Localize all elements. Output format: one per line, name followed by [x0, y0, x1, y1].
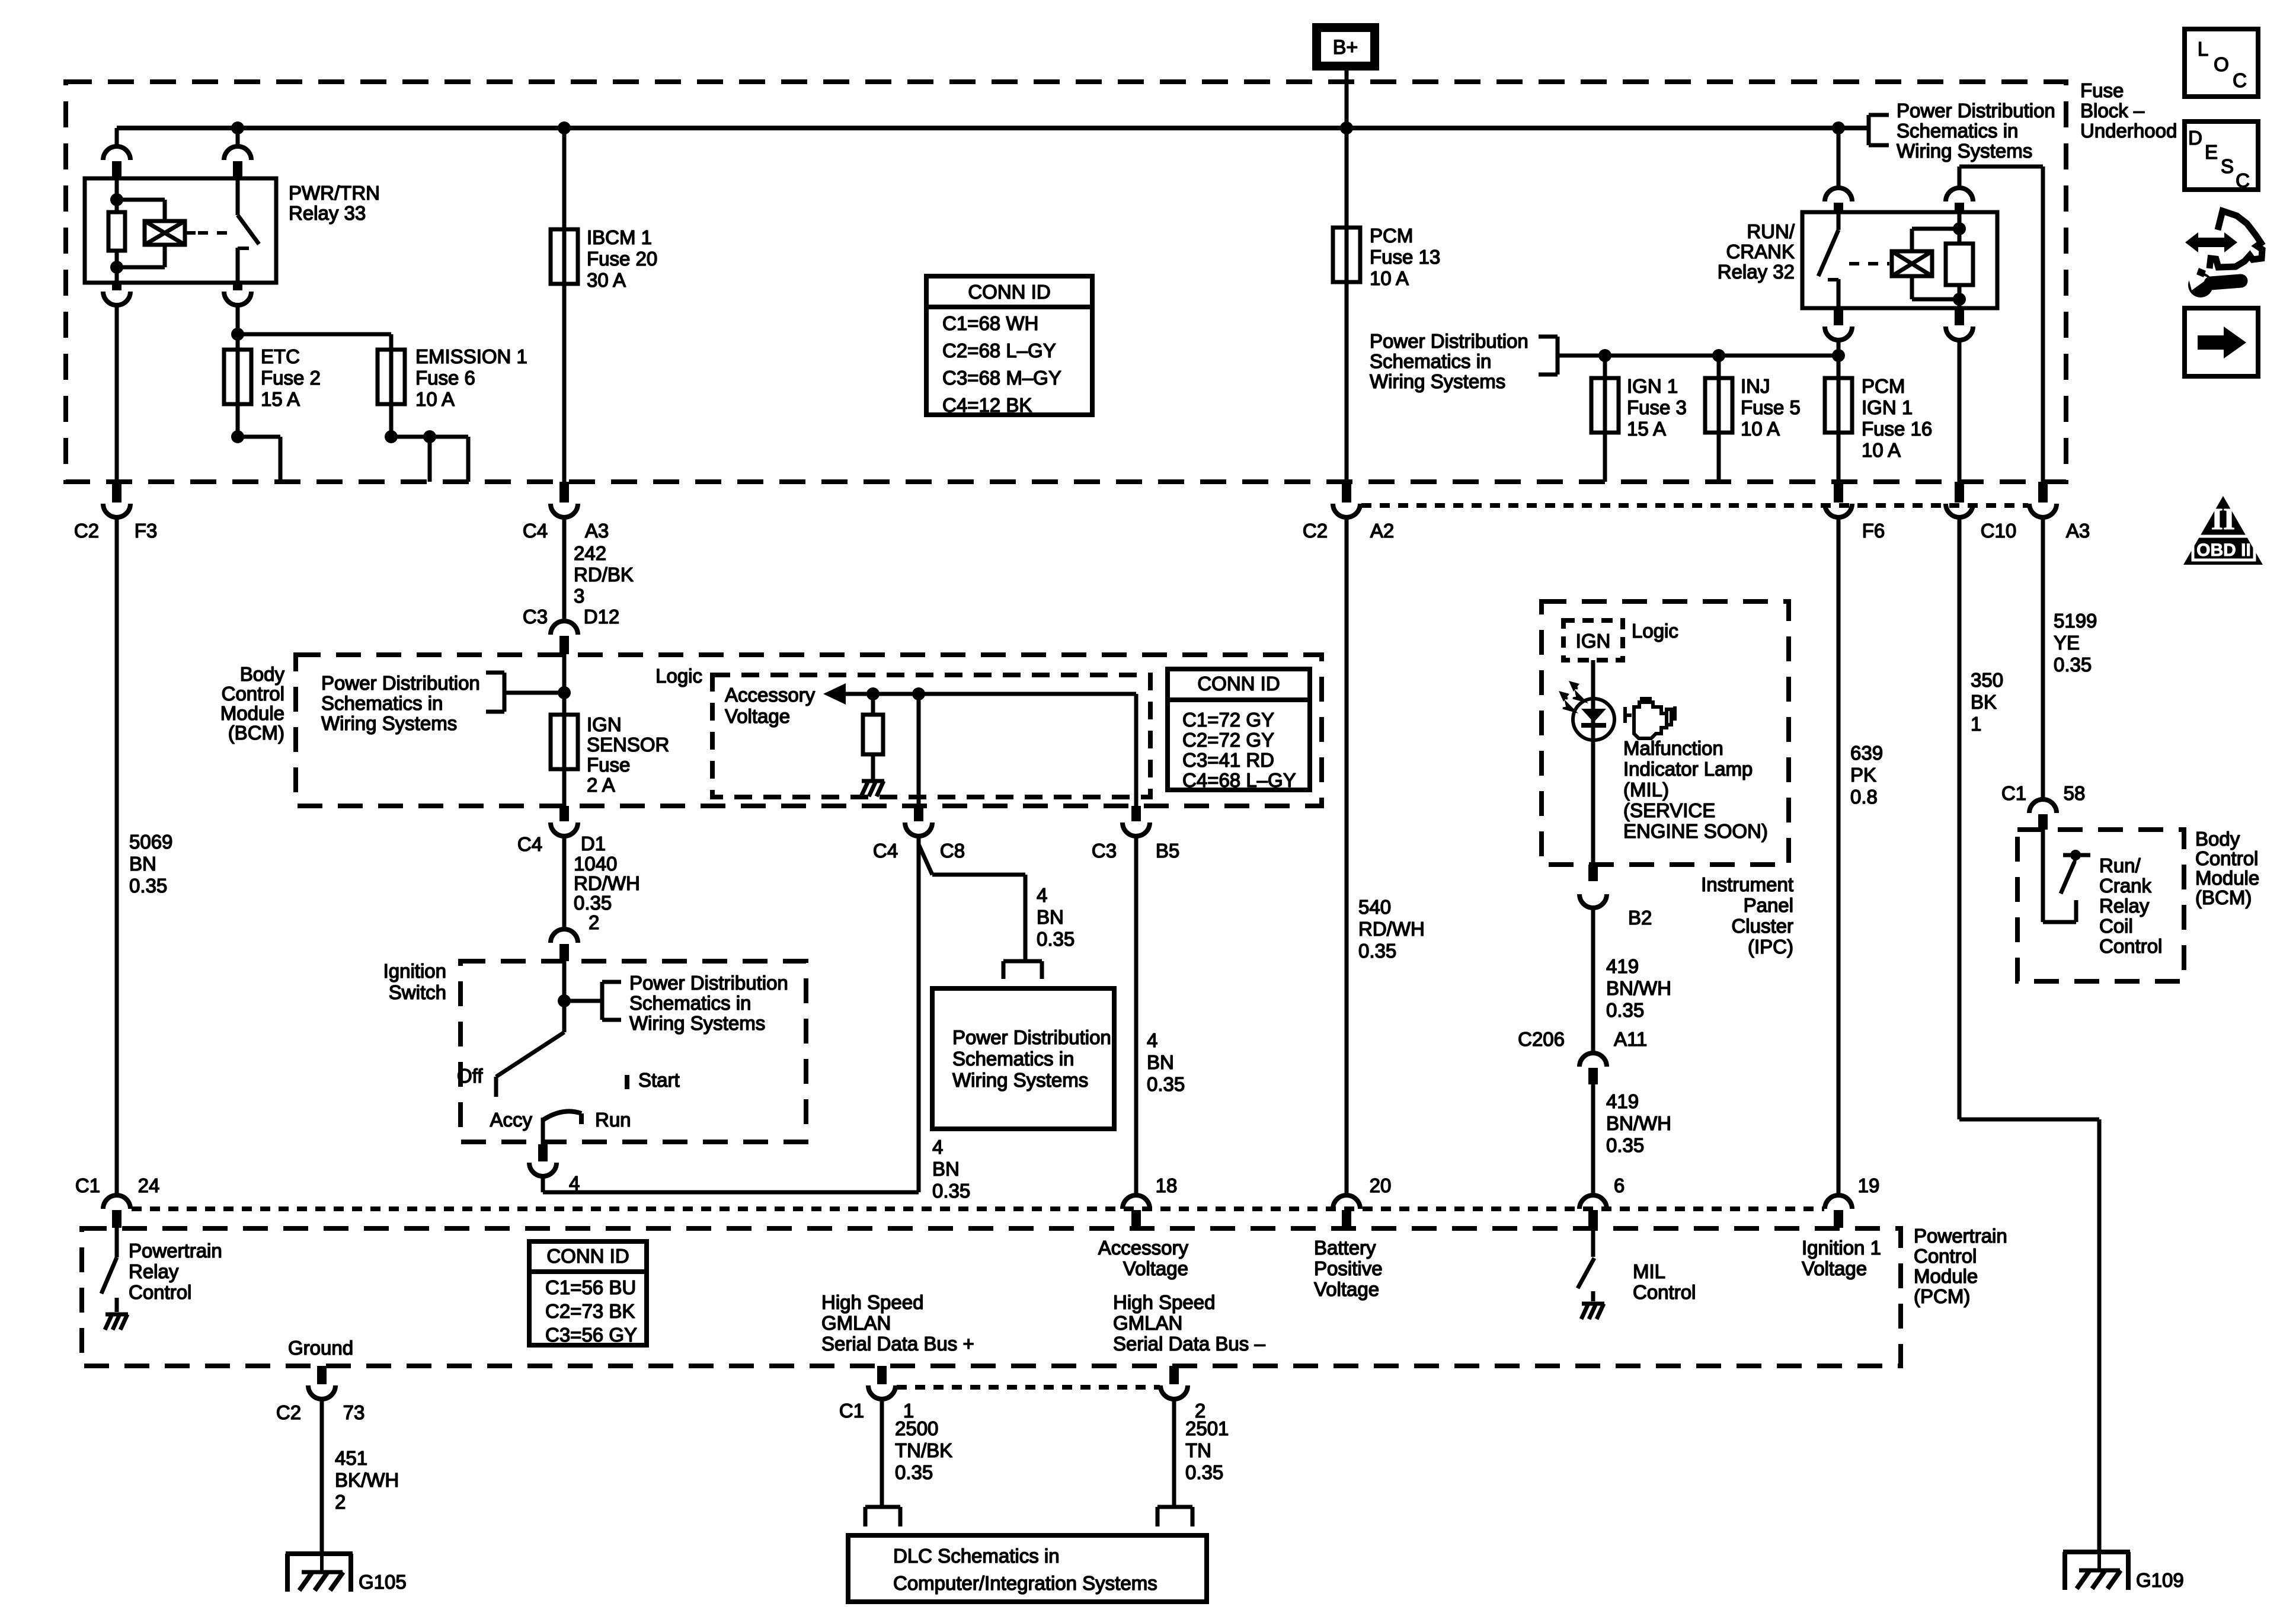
- svg-text:10 A: 10 A: [1862, 439, 1901, 461]
- svg-text:Fuse 3: Fuse 3: [1627, 396, 1687, 418]
- label PWR/TRN Relay 33: [289, 182, 380, 224]
- svg-text:18: 18: [1156, 1174, 1178, 1196]
- label pin 4 (ignition output): [569, 1172, 580, 1194]
- wire bus to relay32 switch pin: [1837, 128, 1841, 188]
- module PCM powertrain control module box: [82, 1228, 1901, 1366]
- svg-text:IGN: IGN: [587, 713, 622, 735]
- node bus junction run-crank relay: [1832, 121, 1845, 135]
- svg-text:C1: C1: [839, 1400, 864, 1422]
- label wire 2500 TN/BK 0.35: [895, 1417, 952, 1483]
- svg-text:(MIL): (MIL): [1623, 779, 1669, 801]
- switch MIL control: [1578, 1228, 1594, 1301]
- svg-text:Control: Control: [2099, 935, 2162, 957]
- label power distribution schematics (top right): [1897, 100, 2055, 162]
- harness boundary dotted line (DLC): [897, 1385, 1160, 1390]
- label INJ Fuse 5 10A: [1741, 375, 1801, 440]
- label Instrument Panel Cluster (IPC): [1701, 873, 1793, 958]
- svg-text:A3: A3: [2066, 520, 2090, 542]
- svg-text:30 A: 30 A: [587, 269, 626, 291]
- svg-text:S: S: [2221, 155, 2234, 177]
- svg-text:ENGINE SOON): ENGINE SOON): [1623, 820, 1768, 842]
- svg-text:L: L: [2198, 38, 2208, 60]
- svg-text:(IPC): (IPC): [1748, 936, 1793, 958]
- label wire 5069 BN 0.35: [129, 831, 172, 897]
- connector fuse block exit C2-F3: [103, 482, 130, 517]
- label IBCM 1 Fuse 20 30A: [587, 226, 657, 291]
- node feed junction relay32 switch: [1832, 349, 1845, 362]
- svg-text:IBCM 1: IBCM 1: [587, 226, 652, 248]
- fuse block underhood dashed outline: [66, 82, 2066, 482]
- label Accessory Voltage (pin 18): [1098, 1237, 1189, 1279]
- label connector C3 B5: [1092, 840, 1179, 862]
- label power distribution schematics (ign fuse feed): [1370, 330, 1528, 392]
- svg-text:DLC Schematics in: DLC Schematics in: [893, 1545, 1060, 1567]
- svg-text:Run: Run: [595, 1109, 631, 1131]
- wire logic to C4-C8 connector: [917, 694, 921, 806]
- label wire 639 PK 0.8: [1850, 742, 1883, 808]
- label wire 242 RD/BK 3: [574, 542, 634, 607]
- node BCM power distribution tap: [558, 686, 571, 699]
- svg-text:451: 451: [335, 1447, 367, 1469]
- wire 1040 RD/WH to ignition switch: [562, 836, 567, 929]
- svg-text:B+: B+: [1333, 36, 1358, 59]
- svg-text:(BCM): (BCM): [228, 722, 284, 744]
- svg-text:73: 73: [343, 1401, 365, 1423]
- svg-text:Fuse 13: Fuse 13: [1370, 246, 1440, 268]
- table CONN ID PCM: [529, 1241, 647, 1346]
- svg-text:C2: C2: [1303, 520, 1328, 542]
- svg-text:EMISSION 1: EMISSION 1: [415, 345, 527, 367]
- svg-text:15 A: 15 A: [1627, 418, 1666, 440]
- node relay33 coil bottom: [110, 261, 123, 274]
- wire BCM ign sensor feed: [562, 654, 567, 806]
- svg-text:Underhood: Underhood: [2080, 120, 2177, 142]
- node logic resistor tap: [866, 687, 880, 700]
- svg-text:Fuse 2: Fuse 2: [261, 367, 321, 389]
- svg-text:C4=12 BK: C4=12 BK: [942, 394, 1032, 416]
- svg-text:Control: Control: [129, 1281, 191, 1303]
- harness boundary dotted line (PCM top): [132, 1206, 1824, 1211]
- wire ignition fuse feed line: [1558, 354, 1838, 358]
- svg-text:D1: D1: [581, 833, 606, 854]
- connector relay32 coil pin bottom: [1946, 308, 1973, 340]
- svg-text:PWR/TRN: PWR/TRN: [289, 182, 380, 204]
- svg-text:Control: Control: [1633, 1281, 1696, 1303]
- wire 2501 TN: [1172, 1399, 1176, 1509]
- wire 5199 YE to C1-58: [2041, 517, 2045, 800]
- svg-text:G105: G105: [359, 1571, 407, 1593]
- svg-text:Cluster: Cluster: [1731, 915, 1793, 937]
- ground MIL control: [1581, 1304, 1604, 1319]
- svg-text:Relay 32: Relay 32: [1718, 261, 1795, 283]
- label pin 6: [1614, 1174, 1625, 1196]
- box power distribution schematics reference: [932, 988, 1114, 1129]
- connector C206-A11 inline: [1579, 1053, 1607, 1084]
- label wire 5199 YE 0.35: [2054, 610, 2097, 676]
- wire relay33 switch output: [236, 305, 240, 437]
- svg-text:C4: C4: [517, 833, 542, 855]
- svg-text:TN/BK: TN/BK: [895, 1439, 952, 1461]
- wire 350 BK 1 to G109: [1959, 517, 2099, 1554]
- svg-text:5199: 5199: [2054, 610, 2097, 632]
- svg-text:0.35: 0.35: [895, 1461, 933, 1483]
- label Fuse Block - Underhood: [2080, 79, 2177, 142]
- connector PCM GMLAN+ C1-1: [868, 1366, 896, 1399]
- label wire 350 BK 1: [1971, 669, 2003, 735]
- node feed junction INJ fuse: [1712, 349, 1725, 362]
- wire 242 RD/BK 3: [562, 517, 567, 621]
- svg-text:PCM: PCM: [1370, 225, 1413, 247]
- node ETC output junction: [231, 430, 244, 443]
- connector C3-D12 inline: [551, 621, 578, 654]
- svg-text:High Speed: High Speed: [1113, 1291, 1215, 1313]
- resistor relay32 internal: [1946, 244, 1973, 285]
- connector relay32 coil pin top: [1946, 188, 1973, 212]
- wire relay32 switch output to fuse16: [1837, 340, 1841, 356]
- svg-text:419: 419: [1606, 955, 1639, 977]
- wire B+ to bus: [1345, 71, 1349, 126]
- svg-text:5069: 5069: [129, 831, 172, 853]
- wire 2500 TN/BK: [880, 1399, 884, 1509]
- svg-text:C1: C1: [2001, 782, 2026, 804]
- node relay33 coil top: [110, 193, 123, 206]
- wire PCM fuse 13 to C2-A2 exit: [1345, 228, 1349, 482]
- switch relay33 contacts: [238, 178, 259, 283]
- svg-text:Schematics in: Schematics in: [952, 1048, 1074, 1070]
- svg-text:3: 3: [574, 585, 584, 607]
- wire relay32 coil to switch dashed link: [1849, 262, 1889, 265]
- svg-text:D: D: [2188, 127, 2202, 149]
- wire battery bus: [117, 126, 1869, 130]
- connector relay32 switch pin top: [1825, 188, 1852, 212]
- label connector C1 58: [2001, 782, 2085, 804]
- svg-text:Block –: Block –: [2080, 100, 2145, 121]
- svg-text:BN: BN: [1147, 1051, 1174, 1073]
- svg-text:BK/WH: BK/WH: [335, 1469, 399, 1491]
- svg-text:Control: Control: [2195, 847, 2258, 869]
- svg-text:Battery: Battery: [1314, 1237, 1376, 1259]
- wire relay33 coil to switch dashed link: [185, 231, 236, 235]
- svg-text:RD/WH: RD/WH: [1358, 918, 1425, 940]
- icon DESC box: [2185, 121, 2258, 191]
- node relay33 output branch: [231, 328, 244, 341]
- node bus junction relay33 switch: [231, 121, 244, 135]
- svg-text:Wiring Systems: Wiring Systems: [1897, 140, 2032, 162]
- icon OBD II triangle: [2183, 496, 2263, 565]
- svg-text:Wiring Systems: Wiring Systems: [321, 712, 457, 734]
- svg-text:RD/BK: RD/BK: [574, 564, 634, 585]
- svg-text:II: II: [2211, 503, 2235, 536]
- svg-text:Body: Body: [240, 663, 285, 685]
- off-page bracket DLC -: [1157, 1507, 1192, 1526]
- svg-text:F3: F3: [135, 520, 158, 542]
- label PCM IGN 1 Fuse 16 10A: [1862, 375, 1932, 461]
- labels fuse block exit pins: [74, 520, 2090, 542]
- connector PCM pin 24: [103, 1195, 130, 1228]
- svg-text:CONN ID: CONN ID: [968, 281, 1050, 303]
- svg-text:B2: B2: [1628, 907, 1652, 929]
- label wire 4 BN 0.35 (to C8): [932, 1136, 970, 1202]
- label Body Control Module (BCM) right: [2195, 828, 2259, 908]
- label pin C1 24: [75, 1174, 159, 1196]
- label Ignition Switch: [383, 960, 446, 1003]
- svg-text:E: E: [2205, 141, 2218, 163]
- svg-text:O: O: [2214, 53, 2229, 75]
- node feed junction IGN1 fuse: [1598, 349, 1611, 362]
- svg-text:Module: Module: [2195, 867, 2259, 889]
- svg-text:Accessory: Accessory: [725, 684, 816, 706]
- connector relay33 switch pin bottom: [224, 283, 251, 305]
- svg-text:CRANK: CRANK: [1726, 241, 1795, 263]
- label High Speed GMLAN bus +: [821, 1291, 974, 1355]
- svg-text:C: C: [2233, 69, 2247, 91]
- resistor logic pulldown: [863, 694, 883, 780]
- connector C3-B5 BCM exit: [1123, 806, 1150, 836]
- svg-text:BN: BN: [129, 853, 156, 875]
- icon check engine: [1625, 699, 1675, 738]
- label Ground: [288, 1337, 353, 1359]
- svg-text:IGN: IGN: [1576, 630, 1611, 652]
- svg-text:2500: 2500: [895, 1417, 938, 1439]
- fuse F3 IGN 1 15A: [1591, 356, 1619, 482]
- wire bus to relay33 coil pin: [115, 128, 119, 147]
- svg-text:0.35: 0.35: [1606, 999, 1644, 1021]
- coil relay33 winding: [145, 221, 185, 245]
- label pin 19: [1858, 1174, 1880, 1196]
- connector fuse block exit C2-A2: [1333, 482, 1360, 517]
- connector fuse block exit C10: [1946, 482, 1973, 517]
- node relay32 coil top junction: [1953, 222, 1966, 235]
- ground logic resistor: [861, 781, 884, 796]
- svg-text:Relay: Relay: [2099, 895, 2150, 917]
- svg-text:0.35: 0.35: [1147, 1073, 1185, 1095]
- wire relay32 coil pin top L-route to A3: [1959, 167, 2043, 482]
- svg-text:IGN 1: IGN 1: [1862, 396, 1913, 418]
- svg-text:C1: C1: [75, 1174, 100, 1196]
- off-page bracket DLC +: [865, 1507, 900, 1526]
- connector fuse block exit C4-A3: [551, 482, 578, 517]
- svg-text:1040: 1040: [574, 853, 617, 875]
- svg-text:19: 19: [1858, 1174, 1880, 1196]
- wire 4 BN accessory voltage route: [543, 836, 919, 1192]
- svg-text:Module: Module: [1914, 1265, 1978, 1287]
- fuse F5 INJ 10A: [1705, 356, 1732, 482]
- svg-text:2: 2: [589, 911, 599, 933]
- svg-text:58: 58: [2064, 782, 2086, 804]
- label connector C3 D12: [523, 606, 619, 628]
- svg-text:Fuse: Fuse: [587, 754, 630, 776]
- label G109: [2136, 1569, 2184, 1591]
- label Logic (IPC): [1632, 620, 1678, 642]
- label Off: [457, 1065, 483, 1087]
- svg-text:Power Distribution: Power Distribution: [629, 972, 788, 994]
- svg-text:C2: C2: [276, 1401, 301, 1423]
- label Logic (BCM): [655, 665, 702, 687]
- node emission output junction a: [385, 430, 398, 443]
- connector IPC B2 exit: [1579, 865, 1607, 908]
- module ignition switch dashed box: [461, 961, 806, 1142]
- label Start with contact tick: [627, 1069, 680, 1091]
- switch ignition blade: [496, 1032, 564, 1097]
- label wire 2501 TN 0.35: [1185, 1417, 1229, 1483]
- svg-text:Schematics in: Schematics in: [1370, 350, 1491, 372]
- svg-text:Crank: Crank: [2099, 875, 2152, 897]
- svg-text:CONN ID: CONN ID: [546, 1245, 629, 1267]
- svg-text:2501: 2501: [1185, 1417, 1229, 1439]
- fuse F16 PCM IGN 1 10A: [1825, 356, 1852, 482]
- svg-text:BN/WH: BN/WH: [1606, 1112, 1671, 1134]
- svg-text:YE: YE: [2054, 632, 2080, 654]
- label connector C4 D1: [517, 833, 606, 855]
- table CONN ID fuse block: [926, 276, 1092, 416]
- svg-text:Run/: Run/: [2099, 854, 2141, 876]
- module BCM body control module box: [296, 655, 1322, 806]
- label Body Control Module (BCM): [220, 663, 285, 744]
- svg-text:Fuse 6: Fuse 6: [415, 367, 475, 389]
- resistor relay33 internal: [108, 212, 125, 251]
- svg-text:F6: F6: [1862, 520, 1885, 542]
- label wire 419 BN/WH 0.35 (upper): [1606, 955, 1671, 1021]
- ground G105: [286, 1551, 353, 1592]
- svg-text:540: 540: [1358, 896, 1391, 918]
- svg-text:0.35: 0.35: [129, 875, 167, 897]
- connector PCM pin 6: [1579, 1195, 1607, 1228]
- svg-text:IGN 1: IGN 1: [1627, 375, 1678, 397]
- svg-text:RD/WH: RD/WH: [574, 872, 640, 894]
- fuse F2 ETC 15A: [224, 350, 251, 404]
- label wire 4 BN 0.35 (C8 branch): [1037, 884, 1075, 950]
- wire relay33 resistor bottom: [115, 251, 119, 283]
- wire 4 BN to PCM pin 18: [1134, 836, 1139, 1196]
- label wire 540 RD/WH 0.35: [1358, 896, 1425, 962]
- connector C4-C8 BCM exit: [905, 806, 932, 836]
- svg-text:242: 242: [574, 542, 606, 564]
- svg-text:A3: A3: [585, 520, 609, 542]
- svg-text:C206: C206: [1518, 1028, 1565, 1050]
- coil relay32 winding: [1892, 251, 1932, 276]
- connector C4-D1 BCM exit: [551, 806, 578, 836]
- label High Speed GMLAN bus -: [1113, 1291, 1265, 1355]
- ground powertrain relay control: [105, 1314, 128, 1330]
- svg-text:Wiring Systems: Wiring Systems: [1370, 370, 1505, 392]
- svg-text:6: 6: [1614, 1174, 1625, 1196]
- svg-text:Ignition: Ignition: [383, 960, 446, 982]
- power symbol B+ battery feed: [1312, 23, 1379, 71]
- label wire 1040 RD/WH 0.35 pin 2: [574, 853, 640, 933]
- connector ignition switch output pin4: [529, 1144, 557, 1176]
- wire 419 BN/WH to PCM pin 6: [1591, 1084, 1595, 1196]
- label Powertrain Control Module (PCM): [1914, 1225, 2007, 1307]
- svg-text:INJ: INJ: [1741, 375, 1770, 397]
- relay K33 PWR/TRN Relay 33 box: [85, 178, 276, 283]
- svg-text:C8: C8: [940, 840, 965, 862]
- svg-text:C1=68 WH: C1=68 WH: [942, 312, 1038, 334]
- svg-text:BN: BN: [932, 1158, 960, 1180]
- wire relay33 coil branch top: [117, 200, 165, 221]
- svg-text:Voltage: Voltage: [1314, 1278, 1379, 1300]
- svg-text:Wiring Systems: Wiring Systems: [629, 1012, 765, 1034]
- svg-text:Fuse 16: Fuse 16: [1862, 418, 1932, 440]
- svg-text:C4: C4: [873, 840, 898, 862]
- svg-text:10 A: 10 A: [1741, 418, 1780, 440]
- label IGN SENSOR Fuse 2A: [587, 713, 669, 796]
- svg-text:Instrument: Instrument: [1701, 873, 1793, 895]
- wire ETC output to block edge: [238, 437, 280, 482]
- svg-text:Malfunction: Malfunction: [1623, 737, 1723, 759]
- svg-text:Power Distribution: Power Distribution: [1897, 100, 2055, 121]
- label connector C206 A11: [1518, 1028, 1647, 1050]
- svg-text:0.35: 0.35: [2054, 654, 2092, 676]
- svg-text:Serial Data Bus –: Serial Data Bus –: [1113, 1333, 1265, 1355]
- connector relay33 switch pin top: [224, 146, 251, 178]
- wire 5069 BN 0.35: [115, 517, 119, 1196]
- svg-text:Control: Control: [1914, 1245, 1977, 1267]
- svg-text:Relay 33: Relay 33: [289, 202, 366, 224]
- svg-text:Power Distribution: Power Distribution: [321, 672, 480, 694]
- arrows LED light emission: [1559, 681, 1585, 712]
- svg-text:OBD II: OBD II: [2196, 540, 2251, 560]
- svg-text:Computer/Integration Systems: Computer/Integration Systems: [893, 1572, 1157, 1594]
- label IGN 1 Fuse 3 15A: [1627, 375, 1687, 440]
- svg-text:2 A: 2 A: [587, 774, 615, 796]
- fuse F20 IBCM 1 30A: [551, 229, 578, 284]
- module BCM run-crank box: [2017, 830, 2184, 981]
- svg-text:Coil: Coil: [2099, 915, 2133, 937]
- svg-text:GMLAN: GMLAN: [1113, 1312, 1182, 1334]
- label G105: [359, 1571, 407, 1593]
- switch relay32 contacts: [1818, 212, 1838, 308]
- svg-text:C4: C4: [523, 520, 548, 542]
- svg-text:Off: Off: [457, 1065, 483, 1087]
- svg-text:Voltage: Voltage: [1802, 1257, 1867, 1279]
- svg-text:B5: B5: [1156, 840, 1179, 862]
- svg-text:0.35: 0.35: [932, 1180, 970, 1202]
- label RUN/CRANK Relay 32: [1718, 220, 1795, 283]
- svg-text:C3: C3: [523, 606, 548, 628]
- label Run/Crank Relay Coil Control: [2099, 854, 2162, 957]
- svg-text:C3=68 M–GY: C3=68 M–GY: [942, 367, 1061, 389]
- svg-text:4: 4: [932, 1136, 943, 1158]
- svg-text:TN: TN: [1185, 1439, 1211, 1461]
- module BCM logic dashed box: [712, 675, 1150, 797]
- connector relay32 switch pin bottom: [1825, 308, 1852, 340]
- svg-text:Module: Module: [220, 702, 284, 724]
- fuse F13 PCM 10A: [1333, 228, 1360, 282]
- svg-text:Control: Control: [222, 683, 284, 705]
- svg-text:C1=72 GY: C1=72 GY: [1182, 709, 1274, 731]
- wire IGN to MIL lamp: [1591, 660, 1595, 865]
- label wire 4 BN 0.35 (pin 18): [1147, 1029, 1185, 1095]
- contact Accy-Run arc: [543, 1111, 581, 1124]
- svg-text:A11: A11: [1614, 1028, 1647, 1050]
- connector relay33 coil pin bottom: [103, 283, 130, 305]
- wire 639 PK 0.8 to PCM pin 19: [1837, 517, 1841, 1196]
- svg-text:BN/WH: BN/WH: [1606, 977, 1671, 999]
- off-page bracket power distribution (BCM): [486, 673, 564, 712]
- off-page bracket power distribution (ign fuse feed): [1539, 337, 1558, 375]
- connector ignition switch input pin2: [551, 929, 578, 961]
- label wire 451 BK/WH 2: [335, 1447, 399, 1513]
- svg-text:0.8: 0.8: [1850, 786, 1878, 808]
- label connector pin 2: [1195, 1400, 1205, 1422]
- label EMISSION 1 Fuse 6 10A: [415, 345, 527, 410]
- label pin 18: [1156, 1174, 1178, 1196]
- ground G109: [2063, 1550, 2130, 1590]
- node relay32 coil bottom junction: [1953, 293, 1966, 306]
- node emission output junction b: [423, 430, 436, 443]
- svg-text:15 A: 15 A: [261, 388, 300, 410]
- svg-text:10 A: 10 A: [1370, 267, 1409, 289]
